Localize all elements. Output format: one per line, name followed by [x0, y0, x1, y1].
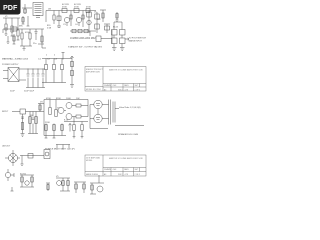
svg-text:PURPLE MULTI WATT 1.2.5 (P): PURPLE MULTI WATT 1.2.5 (P) [45, 148, 75, 151]
svg-text:ECC83: ECC83 [62, 4, 70, 6]
svg-text:68K: 68K [19, 26, 23, 28]
svg-text:EL34: EL34 [113, 27, 119, 29]
svg-text:JCM800 2203-2204 MK2: JCM800 2203-2204 MK2 [70, 38, 96, 40]
svg-text:820K: 820K [56, 98, 61, 100]
svg-text:DATE: DATE [124, 168, 129, 171]
svg-text:100K: 100K [66, 98, 71, 100]
svg-text:ISS 2: ISS 2 [118, 89, 122, 91]
svg-text:1M: 1M [30, 115, 33, 117]
svg-text:AMPLIFIER 50W: AMPLIFIER 50W [86, 71, 100, 74]
svg-text:A3: A3 [104, 88, 106, 91]
svg-text:470K: 470K [62, 6, 67, 8]
svg-text:MODEL: MODEL [86, 160, 92, 162]
svg-text:470K: 470K [74, 6, 79, 8]
svg-text:1M: 1M [48, 8, 51, 10]
svg-text:4.78: 4.78 [125, 174, 129, 176]
svg-text:POWER SUPPLY: POWER SUPPLY [2, 64, 19, 66]
svg-text:470K: 470K [25, 32, 30, 34]
svg-text:MARSHALL JCM800 2204: MARSHALL JCM800 2204 [2, 57, 29, 60]
svg-text:22K: 22K [97, 19, 101, 21]
svg-text:4.78: 4.78 [125, 89, 129, 91]
svg-text:R1 R2: R1 R2 [20, 174, 27, 176]
svg-text:PDF: PDF [3, 3, 18, 12]
svg-text:ECC83: ECC83 [74, 4, 82, 6]
svg-text:2 OF 2: 2 OF 2 [135, 174, 141, 176]
svg-text:ISS 2: ISS 2 [118, 174, 122, 176]
svg-text:STANDBY SW - OUTPUT VALVES: STANDBY SW - OUTPUT VALVES [68, 45, 102, 48]
svg-text:10K: 10K [76, 98, 80, 100]
svg-text:1: 1 [46, 55, 47, 57]
svg-text:8.2K: 8.2K [64, 120, 69, 122]
svg-text:MASTER VOLUME AMPLIFIER 50W: MASTER VOLUME AMPLIFIER 50W [109, 157, 143, 160]
svg-text:470K: 470K [46, 98, 51, 100]
svg-text:LAYOUT: LAYOUT [2, 145, 11, 148]
svg-text:DATE: DATE [124, 84, 129, 87]
svg-text:470K: 470K [86, 6, 91, 8]
svg-text:2: 2 [54, 55, 55, 57]
svg-text:SPEAKER 8-16 OHM: SPEAKER 8-16 OHM [118, 133, 138, 136]
svg-text:Valve/Tube 1,2,3,4,5(6): Valve/Tube 1,2,3,4,5(6) [119, 107, 141, 109]
svg-text:220K: 220K [45, 122, 50, 124]
svg-text:MODEL NO. 2204: MODEL NO. 2204 [86, 89, 101, 91]
svg-text:A3: A3 [104, 173, 106, 176]
svg-text:50uF 50uF: 50uF 50uF [24, 91, 35, 93]
svg-text:DRAWN: DRAWN [104, 84, 111, 87]
svg-text:MAINS INPUT: MAINS INPUT [129, 40, 143, 43]
svg-text:DRAWN: DRAWN [104, 168, 111, 171]
svg-text:1 OF 2: 1 OF 2 [135, 89, 141, 91]
svg-text:MASTER VOLUME AMPLIFIER 50W: MASTER VOLUME AMPLIFIER 50W [109, 68, 143, 71]
svg-text:TO FOOTSWITCH: TO FOOTSWITCH [129, 38, 147, 40]
svg-text:INPUT: INPUT [2, 111, 9, 113]
svg-text:MADE IN ENG: MADE IN ENG [86, 173, 98, 176]
svg-text:50uF: 50uF [10, 91, 15, 93]
